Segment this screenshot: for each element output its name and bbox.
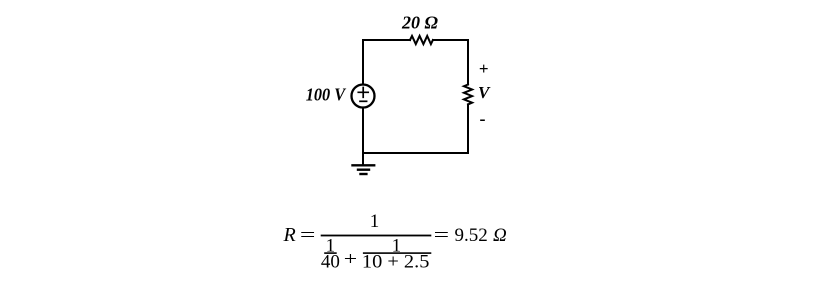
svg-text:100 V: 100 V [306, 84, 347, 104]
svg-text:Ω: Ω [493, 225, 507, 246]
svg-text:=: = [434, 225, 450, 246]
svg-text:1: 1 [370, 211, 380, 232]
svg-text:9.52: 9.52 [455, 225, 488, 246]
svg-text:R: R [283, 224, 296, 246]
svg-text:+: + [479, 59, 489, 78]
svg-text:=: = [300, 225, 316, 246]
svg-text:20 Ω: 20 Ω [401, 13, 439, 33]
svg-text:V: V [478, 83, 491, 102]
svg-text:-: - [480, 109, 486, 129]
svg-text:+: + [344, 249, 357, 270]
svg-text:40: 40 [321, 252, 340, 273]
svg-text:10 + 2.5: 10 + 2.5 [362, 252, 430, 273]
